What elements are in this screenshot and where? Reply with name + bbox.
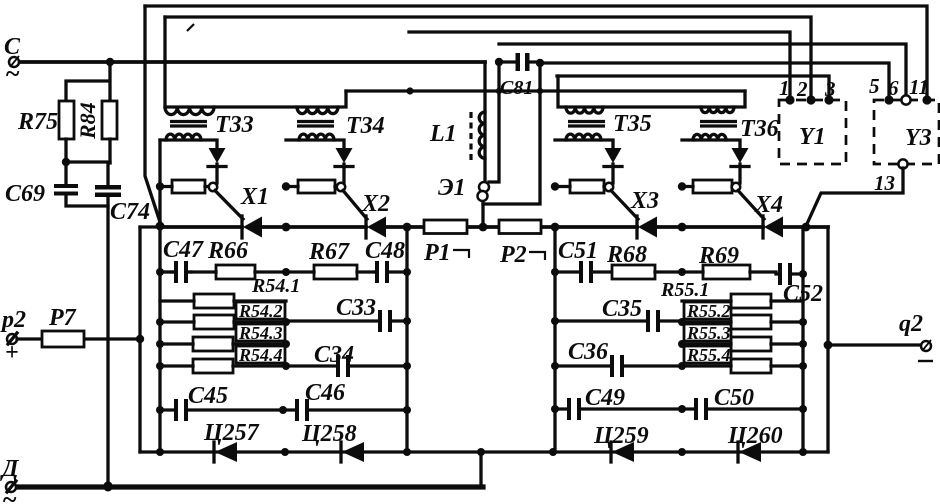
capacitor C81: [516, 53, 521, 71]
wire bottom rail: [16, 484, 483, 489]
node junction C81-left drop / mid line: [496, 88, 502, 94]
svg-text:R55.1: R55.1: [660, 279, 709, 301]
node C48/right vertical junction: [403, 268, 411, 276]
svg-text:3: 3: [824, 77, 836, 101]
wire right outer vertical: [826, 227, 829, 452]
node rail/diode row: [156, 448, 164, 456]
resistor R54.2 element: [194, 315, 234, 329]
wire terminal q2 wire: [828, 343, 921, 346]
svg-text:R54.3: R54.3: [238, 323, 283, 343]
svg-text:R55.3: R55.3: [686, 323, 731, 343]
wire E1 lower lead: [481, 200, 484, 227]
svg-text:R55.2: R55.2: [686, 301, 731, 321]
wire R84 bottom lead: [108, 139, 111, 163]
node right rail/diode row: [549, 448, 557, 456]
svg-text:Э1: Э1: [438, 175, 466, 201]
svg-text:Р1: Р1: [423, 240, 451, 266]
transformer T35 primary: [558, 76, 566, 107]
transformer secondary winding (X4 gate): [693, 134, 726, 140]
gate resistor (X2): [298, 180, 335, 193]
resistor R55.3 element: [731, 337, 771, 351]
node R75/R84 bottom join: [62, 158, 70, 166]
node bus/X3 rail: [551, 223, 560, 232]
label frame R55.3: [684, 324, 731, 341]
diode D259: [609, 442, 612, 462]
svg-text:T33: T33: [215, 112, 254, 138]
node X2 rail/resistor junction: [282, 182, 290, 190]
svg-text:X3: X3: [630, 188, 659, 214]
resistor R66: [216, 265, 255, 279]
wire X1 gate lead: [215, 191, 243, 220]
node right center/diode row: [678, 448, 686, 456]
node rail/C51 junction: [551, 268, 559, 276]
node C81 right node: [536, 59, 544, 67]
resistor R69: [703, 265, 750, 279]
node rail/C35 junction: [551, 317, 559, 325]
node bottom rail riser junction: [477, 448, 485, 456]
node X3 rail/resistor junction: [551, 182, 559, 190]
wire X2 gate lead: [343, 191, 367, 220]
node bank left junction: [678, 318, 686, 326]
wire right rail x555 below bus: [553, 227, 556, 452]
svg-text:6: 6: [888, 76, 899, 100]
wire outer lower-left vertical: [138, 227, 141, 452]
resistor R55.2 element: [731, 315, 771, 329]
wire X4 gate lead: [738, 191, 764, 220]
module Y1 dashed box: [779, 100, 846, 164]
pin 13 of Y3: [898, 159, 907, 168]
node bank right junction: [282, 318, 290, 326]
node rail/C47 junction: [156, 268, 164, 276]
terminal C circle: [9, 57, 19, 67]
svg-text:Y3: Y3: [905, 125, 932, 151]
node bus junction to RC branch: [106, 58, 114, 66]
thyristor X4: [761, 216, 764, 238]
node bus/pin13 slant: [802, 223, 811, 232]
resistor R55.1 element: [731, 294, 771, 308]
svg-text:C36: C36: [568, 339, 608, 365]
node bank right junction: [282, 362, 290, 370]
capacitor C51: [579, 261, 583, 283]
gate resistor (X4): [693, 180, 732, 193]
svg-text:q2: q2: [899, 311, 923, 337]
svg-text:R67: R67: [308, 239, 350, 265]
node bank right junction: [799, 318, 807, 326]
svg-text:C81: C81: [500, 77, 533, 99]
node x407/diode row: [403, 448, 411, 456]
wire transformer primary mid line: [346, 89, 745, 92]
wire X3 gate lead: [611, 191, 638, 220]
wire C47 row left lead: [160, 270, 172, 273]
pin 6 of Y module: [901, 95, 910, 104]
inductor L1: [479, 62, 485, 158]
node bus/C48 vertical: [403, 223, 412, 232]
svg-text:11: 11: [909, 75, 929, 99]
diode D258: [339, 442, 342, 462]
diode D260: [736, 442, 739, 462]
node right center/R row junction: [678, 268, 686, 276]
node bank right junction: [282, 340, 290, 348]
wire RC mid join: [66, 160, 110, 163]
capacitor C34: [336, 355, 340, 377]
diode D257: [212, 442, 215, 462]
fuse P7: [42, 331, 84, 347]
svg-text:Y1: Y1: [799, 124, 826, 150]
svg-text:R54.1: R54.1: [251, 275, 300, 297]
wire main AC bus from terminal C: [19, 60, 485, 64]
wire right inner vertical x803: [801, 227, 804, 452]
svg-text:C50: C50: [714, 385, 754, 411]
transformer T36 core: [700, 122, 737, 127]
wire anode bus segment 1: [160, 225, 242, 229]
wire anode bus segment 3: [386, 225, 637, 229]
transformer secondary winding (X3 gate): [566, 134, 601, 140]
svg-text:C69: C69: [5, 181, 45, 207]
L1 core dashed: [469, 112, 472, 162]
resistor R54.4 element: [193, 359, 233, 373]
svg-text:C74: C74: [110, 199, 150, 225]
pin 3 of Y module: [824, 95, 833, 104]
wire diode row: [140, 450, 828, 453]
transformer secondary winding (X2 gate): [299, 134, 334, 140]
svg-text:C47: C47: [163, 237, 204, 263]
wire line to Y3 pin 6: [499, 44, 906, 100]
label frame R54.3: [236, 324, 285, 341]
transformer T36 primary: [701, 107, 734, 113]
svg-text:R68: R68: [606, 242, 647, 268]
svg-text:Ц259: Ц259: [593, 423, 649, 449]
node junction C81-right drop / mid line: [537, 88, 543, 94]
node bottom rail / C74: [104, 483, 113, 492]
resistor R68: [612, 265, 655, 279]
wire anode bus segment 5: [783, 225, 828, 229]
wire top loop to Y3 pin 11: [145, 6, 927, 99]
node X2 gate circle: [337, 183, 345, 191]
svg-text:C49: C49: [585, 385, 625, 411]
node C50 right junction: [799, 405, 807, 413]
transformer secondary winding (X1 gate): [166, 134, 201, 140]
svg-text:Ц257: Ц257: [203, 420, 260, 446]
capacitor C35: [646, 310, 650, 332]
wire T35-T36 primary link: [603, 105, 701, 108]
node C46 right junction: [403, 406, 411, 414]
svg-text:C45: C45: [188, 383, 228, 409]
diode (X1 gate rectifier): [209, 148, 226, 163]
thyristor X3: [635, 216, 638, 238]
wire node A jog: [140, 222, 160, 227]
capacitor C48: [375, 261, 379, 283]
capacitor C74: [95, 185, 121, 190]
pin 11 of Y module: [922, 95, 931, 104]
node bank left junction: [678, 340, 686, 348]
node C33 right junction: [403, 317, 411, 325]
svg-text:Р2: Р2: [499, 242, 527, 268]
node X1 gate circle: [209, 183, 217, 191]
resistor R54.1 element: [194, 294, 234, 308]
svg-text:X4: X4: [754, 192, 783, 218]
svg-text:Р7: Р7: [48, 305, 77, 331]
svg-text:2: 2: [796, 77, 808, 101]
terminal q2 circle: [921, 341, 931, 351]
svg-text:C51: C51: [558, 238, 598, 264]
capacitor C45: [174, 399, 178, 421]
terminal D circle: [6, 482, 16, 492]
node bank right junction: [799, 362, 807, 370]
module Y3 dashed box: [874, 100, 939, 164]
node bank left junction: [678, 362, 686, 370]
terminal q2 minus: [918, 360, 933, 362]
wire line to Y1 pin 2: [165, 17, 811, 99]
fuse P2: [499, 220, 541, 234]
resistor R54.3 element: [193, 337, 233, 351]
label P2 contact mark: [529, 252, 545, 260]
svg-text:C48: C48: [365, 238, 405, 264]
wire X1 rail vertical: [158, 140, 161, 452]
node rail/C36 junction: [551, 362, 559, 370]
pin 5 of Y module: [884, 95, 893, 104]
node C49/C50 junction: [678, 405, 686, 413]
node bank right junction: [799, 340, 807, 348]
svg-text:R75: R75: [17, 109, 58, 135]
svg-text:L1: L1: [429, 121, 457, 147]
svg-text:+: +: [5, 340, 19, 366]
svg-text:X2: X2: [361, 191, 390, 217]
resistor R75: [59, 101, 74, 139]
wire anode bus segment 4: [657, 225, 763, 229]
svg-text:R55.4: R55.4: [686, 345, 731, 365]
node center/diode row: [281, 448, 289, 456]
wire RC branch top leads: [66, 62, 110, 101]
label frame R54.4: [236, 346, 285, 363]
transformer T34 core: [297, 122, 334, 127]
electrode E1 double ring: [479, 182, 489, 192]
node x803/diode row: [799, 448, 807, 456]
wire line to Y1 pin 1: [409, 32, 790, 99]
svg-text:р2: р2: [0, 307, 26, 333]
node C81 left node: [495, 58, 503, 66]
wire R75 bottom lead: [64, 139, 67, 162]
svg-text:R84: R84: [75, 102, 100, 140]
diode (X3 gate rectifier): [605, 148, 622, 163]
svg-text:R54.2: R54.2: [238, 301, 283, 321]
svg-text:R69: R69: [698, 243, 739, 269]
node X1 rail/resistor junction: [156, 182, 164, 190]
node node A: [156, 222, 165, 231]
capacitor C36: [610, 355, 614, 377]
capacitor C47: [174, 261, 178, 283]
svg-text:1: 1: [779, 76, 790, 100]
node bus/L1 drop: [479, 223, 488, 232]
node bus/X2 rail: [282, 223, 291, 232]
node X3 gate circle: [605, 183, 613, 191]
wire C81 right line to Y3 pin 5: [540, 63, 889, 100]
transformer T33 core: [170, 122, 207, 127]
capacitor C52: [778, 263, 782, 285]
label P1 contact mark: [453, 250, 469, 258]
svg-text:~: ~: [5, 59, 20, 88]
fuse P1: [424, 220, 467, 234]
svg-text:Ц260: Ц260: [727, 423, 783, 449]
label frame R55.4: [684, 346, 731, 363]
transformer T33 primary: [163, 17, 166, 107]
node rail/C49 junction: [551, 405, 559, 413]
wire C81 left tap drop: [489, 62, 499, 182]
thyristor X1: [240, 216, 243, 238]
resistor R84: [102, 101, 117, 139]
svg-text:Ц258: Ц258: [301, 421, 357, 447]
capacitor C33: [378, 310, 382, 332]
svg-text:R66: R66: [207, 238, 248, 264]
svg-text:R54.4: R54.4: [238, 345, 283, 365]
wire pin 13 lead: [806, 168, 903, 226]
node C45/C46 junction: [279, 406, 287, 414]
svg-text:C46: C46: [305, 380, 345, 406]
node center/R row junction: [282, 268, 290, 276]
node X4 rail/resistor junction: [678, 182, 686, 190]
node bus/X4 rail: [678, 223, 687, 232]
stray tick mark: [187, 24, 194, 31]
node junction pin1 line / mid line: [406, 87, 413, 94]
svg-text:T35: T35: [613, 111, 652, 137]
svg-text:~: ~: [2, 485, 17, 504]
wire T33-T34 primary link: [214, 105, 297, 108]
wire line to Y1 pin 3: [557, 76, 829, 100]
gate resistor (X1): [172, 180, 205, 193]
svg-text:C34: C34: [314, 342, 354, 368]
resistor R67: [314, 265, 357, 279]
svg-text:T36: T36: [740, 116, 779, 142]
svg-text:C33: C33: [336, 295, 376, 321]
capacitor C46: [295, 399, 299, 421]
node C34 right junction: [403, 362, 411, 370]
transformer T34 primary: [297, 107, 338, 114]
svg-text:T34: T34: [346, 113, 385, 139]
svg-text:Д: Д: [0, 456, 20, 482]
node C74 to bottom rail: [103, 481, 112, 490]
wire C81 right tap drop: [483, 63, 540, 204]
svg-text:5: 5: [869, 74, 880, 98]
wire left inner vertical x407: [405, 227, 408, 452]
svg-text:X1: X1: [240, 184, 269, 210]
wire anode bus segment 2: [262, 225, 366, 229]
capacitor C50: [694, 398, 698, 420]
resistor R55.4 element: [731, 359, 771, 373]
pin 2 of Y module: [806, 95, 815, 104]
wire bottom rail riser: [479, 452, 482, 487]
gate resistor (X3): [570, 180, 604, 193]
wire p2 wire: [17, 337, 140, 340]
capacitor C49: [567, 398, 571, 420]
pin 1 of Y module: [785, 95, 794, 104]
node X4 gate circle: [732, 183, 740, 191]
thyristor X2: [364, 216, 367, 238]
svg-text:C35: C35: [602, 296, 642, 322]
diode (X4 gate rectifier): [732, 148, 749, 163]
diode (X2 gate rectifier): [336, 148, 353, 163]
transformer T35 core: [568, 122, 605, 127]
label frame R55.2: [684, 302, 731, 319]
capacitor C69: [54, 184, 78, 188]
node Q2 tap: [824, 341, 833, 350]
node bank left junction: [156, 340, 164, 348]
label frame R54.2: [236, 302, 285, 319]
node rail/C45 junction: [156, 406, 164, 414]
node bank left junction: [156, 318, 164, 326]
node C52 right junction: [799, 270, 807, 278]
node bank left junction: [156, 362, 164, 370]
node P7 wire junction: [136, 335, 144, 343]
terminal p2 circle: [7, 334, 17, 344]
wire outer loop left vertical with slant: [145, 6, 160, 222]
